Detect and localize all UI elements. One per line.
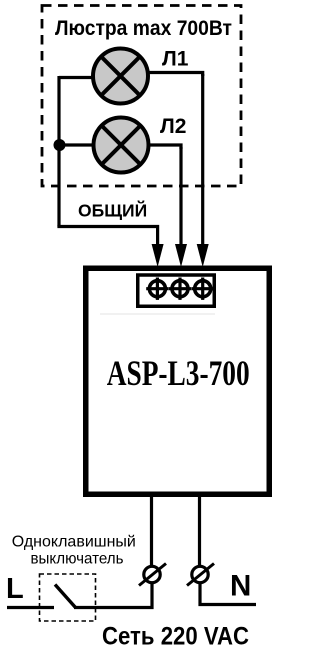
- terminal connector L (circle with slash): [139, 564, 166, 586]
- svg-text:ASP-L3-700: ASP-L3-700: [107, 353, 250, 393]
- wire: lamp L1 left lead: [59, 76, 93, 79]
- wire: lamp L1 feed down to arrow 3: [201, 74, 204, 246]
- switch blade SA1: [55, 585, 76, 608]
- screw terminal 3: [192, 278, 214, 300]
- wire: lamp L2 left lead: [59, 143, 94, 146]
- svg-text:ОБЩИЙ: ОБЩИЙ: [78, 200, 147, 221]
- svg-text:выключатель: выключатель: [31, 551, 124, 568]
- arrow into terminal 1: [152, 244, 164, 267]
- lamp Л1: [93, 49, 148, 104]
- screw terminal 1: [146, 278, 168, 300]
- wire: L input from box to terminal: [150, 494, 153, 566]
- terminal block: [138, 275, 215, 306]
- svg-text:Люстра max 700Вт: Люстра max 700Вт: [55, 17, 232, 40]
- terminal connector N (circle with slash): [187, 564, 214, 586]
- junction: common node: [54, 139, 66, 151]
- wire: lamp L1 right lead: [148, 73, 203, 77]
- svg-text:L: L: [6, 573, 24, 605]
- controller box ASP-L3-700: [86, 268, 270, 494]
- wire: N terminal down and right: [200, 582, 256, 605]
- svg-text:Сеть 220 VAC: Сеть 220 VAC: [102, 623, 249, 651]
- screw terminal 2: [169, 278, 191, 300]
- wire: lamp L2 feed down to arrow 2: [179, 147, 182, 246]
- label "Одноклавишный выключатель" (single-key switch): [12, 534, 136, 568]
- wire: N input from box to terminal: [198, 494, 201, 566]
- lamp Л2: [94, 118, 149, 173]
- wire: lamp L2 right lead: [148, 145, 181, 149]
- svg-text:Одноклавишный: Одноклавишный: [12, 534, 136, 551]
- arrow into terminal 2: [175, 244, 187, 267]
- wire: common horizontal run to arrow 1: [57, 227, 157, 247]
- svg-text:N: N: [230, 570, 251, 603]
- wire: L lead into switch: [7, 606, 54, 609]
- svg-text:Л2: Л2: [160, 115, 186, 138]
- wire: L terminal down and left to switch: [74, 582, 152, 608]
- chandelier enclosure (dashed box): [42, 6, 241, 187]
- arrow into terminal 3: [197, 244, 209, 267]
- wire: common vertical bus: [57, 76, 60, 227]
- svg-text:Л1: Л1: [162, 48, 189, 71]
- switch enclosure (dashed box): [40, 574, 96, 621]
